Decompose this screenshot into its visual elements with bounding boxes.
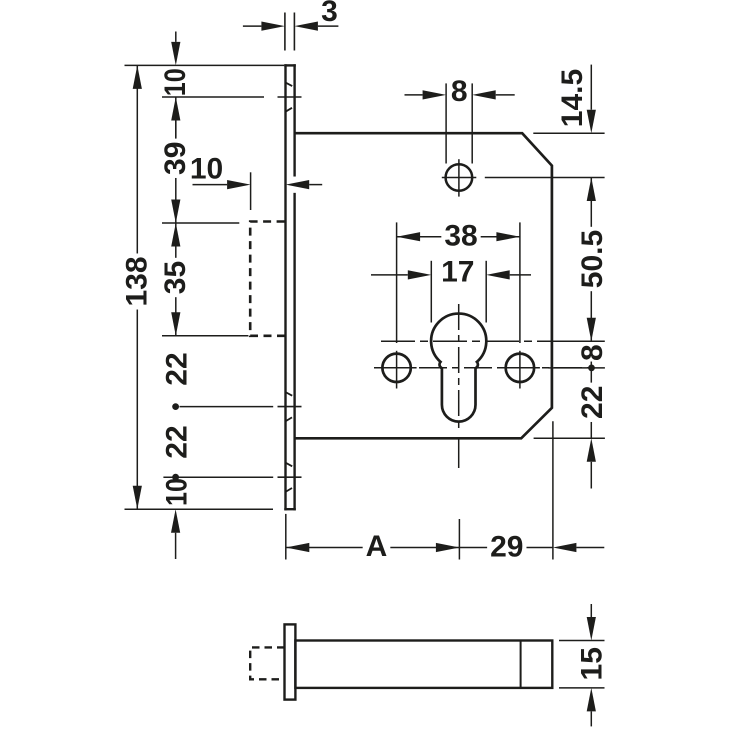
- dim A backset: [286, 514, 460, 563]
- faceplate screw hole mark y=97.0: [278, 82, 302, 111]
- dim 50.5: [576, 178, 609, 342]
- svg-text:10: 10: [190, 153, 223, 186]
- svg-text:8: 8: [451, 75, 468, 108]
- svg-text:38: 38: [444, 220, 477, 253]
- svg-text:8: 8: [576, 344, 609, 361]
- dim 22 left lower: [161, 425, 194, 480]
- dim 10 horizontal: [190, 153, 322, 210]
- ext line y6: [163, 476, 273, 478]
- dim 3 faceplate thickness: [243, 0, 339, 51]
- side holes centerline: [374, 367, 589, 369]
- euro profile cylinder hole: [431, 314, 486, 422]
- left side hole: [378, 351, 417, 389]
- right side hole: [501, 351, 540, 389]
- dim 138: [121, 65, 154, 509]
- svg-text:22: 22: [161, 425, 194, 458]
- top hole centerline: [485, 177, 605, 179]
- cylinder vertical centerline: [458, 304, 460, 468]
- hidden follower box (dashed): [250, 222, 284, 336]
- svg-text:10: 10: [159, 68, 192, 96]
- top fixing hole: [442, 159, 477, 196]
- dim 38: [397, 220, 520, 344]
- svg-text:22: 22: [576, 386, 609, 419]
- svg-text:14.5: 14.5: [556, 69, 589, 127]
- svg-text:50.5: 50.5: [576, 230, 609, 288]
- ext line y3: [162, 222, 239, 224]
- bottom view case: [295, 641, 552, 688]
- dim 17: [371, 256, 531, 323]
- svg-text:35: 35: [159, 261, 192, 294]
- dim 14.5: [533, 65, 604, 134]
- ext line y2: [162, 96, 264, 98]
- faceplate screw hole mark y=477.2: [278, 463, 302, 492]
- bottom view latch (dashed): [250, 647, 284, 679]
- svg-text:A: A: [366, 530, 388, 563]
- dim 10 top: [159, 32, 192, 138]
- ext line y5: [180, 406, 274, 408]
- faceplate (front view): [284, 64, 296, 510]
- svg-text:10: 10: [161, 478, 194, 506]
- ext line y4: [162, 335, 248, 337]
- svg-text:39: 39: [159, 142, 192, 175]
- dim 35: [159, 223, 192, 336]
- svg-text:138: 138: [121, 256, 154, 306]
- dim 39: [159, 97, 192, 223]
- bottom view end line: [520, 641, 522, 688]
- ext line faceplate top: [125, 64, 285, 66]
- bottom view faceplate: [285, 624, 296, 699]
- svg-text:15: 15: [576, 647, 609, 680]
- dim 22 left upper: [161, 352, 194, 410]
- svg-text:22: 22: [161, 352, 194, 385]
- dim 10 bottom: [161, 478, 194, 559]
- dim 8 right: [548, 344, 609, 371]
- svg-text:17: 17: [441, 256, 474, 289]
- svg-text:3: 3: [321, 0, 338, 28]
- dim 29: [459, 421, 604, 563]
- faceplate screw hole mark y=406.6: [278, 392, 302, 421]
- dim 15 case thickness: [559, 604, 609, 726]
- dim 8 top hole dia: [405, 75, 515, 164]
- dim 22 right: [534, 368, 609, 489]
- lock case body outline: [295, 133, 552, 438]
- cylinder horizontal centerline: [381, 340, 605, 342]
- ext line faceplate bottom: [125, 508, 274, 510]
- svg-text:29: 29: [490, 531, 523, 564]
